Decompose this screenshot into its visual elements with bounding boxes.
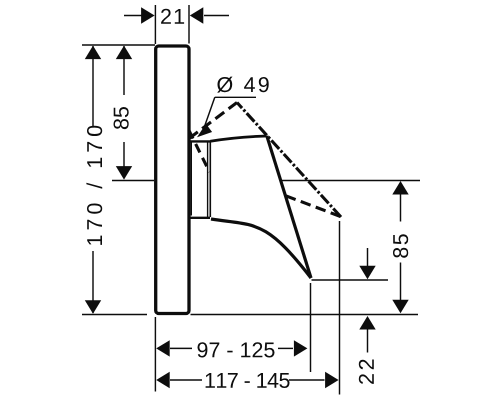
dim 170/170: top arrow — [85, 46, 101, 60]
dim 85 right: lower arrow — [392, 300, 408, 314]
extension line below dashed tip — [339, 221, 341, 395]
dim 117-145: right arrow — [289, 379, 325, 381]
dim 21: left extension line — [154, 5, 156, 44]
dim 85 left: bottom arrow — [116, 166, 132, 180]
bottom reference line left segment — [82, 314, 147, 316]
dashed raised-handle lower edge — [285, 196, 341, 217]
dim 85 right: line lower part — [400, 263, 402, 301]
dash-dot centerline apex to tip — [237, 103, 341, 218]
dim 85 left: line upper part — [123, 46, 125, 95]
dim 170/170: bottom arrow — [85, 300, 101, 314]
dim 170/170: line lower part — [92, 251, 94, 313]
dim 85 right: line upper part — [400, 194, 402, 222]
dim 21: right arrow — [204, 15, 229, 17]
leader arrowhead — [197, 124, 212, 138]
center-level extension line (left short) — [112, 180, 154, 182]
leader shoulder line — [215, 96, 256, 98]
sleeve top edge — [190, 140, 211, 142]
extension line below plate (left) — [154, 317, 156, 392]
bottom reference line right segment — [191, 314, 419, 316]
dim 97-125: left arrow — [156, 340, 170, 356]
dim 85 left: label (rotated) — [114, 107, 129, 129]
wall plate (escutcheon) outline — [156, 46, 189, 314]
dim 85 left: top arrow — [116, 46, 132, 60]
dim 85 left: line lower part — [123, 142, 125, 167]
plate-top extension line (left) — [82, 44, 155, 46]
sleeve right double line outer — [209, 142, 211, 218]
diameter label Ø 49 — [217, 77, 269, 93]
dim 22: upper arrow (points down to tip level) — [359, 266, 375, 280]
dashed circle arc segment (left of sleeve) — [189, 130, 210, 172]
dim 85 right: label (rotated) — [393, 234, 408, 258]
sleeve right double line inner — [207, 142, 209, 218]
dim 22: lower arrow (points up to bottom line) — [359, 316, 375, 330]
dim 170/170: line upper part — [92, 46, 94, 126]
dim 117-145: label — [206, 373, 290, 388]
dim 21: label — [161, 9, 184, 24]
extension line below handle tip — [310, 283, 312, 372]
dashed raised-handle upper-left edge — [189, 103, 237, 139]
dim 21: left arrow — [124, 15, 142, 17]
center-level extension line (right) — [282, 180, 420, 182]
dim 170/170: label (rotated) — [86, 126, 102, 245]
dim 22: label (rotated) — [359, 360, 374, 384]
dim 22: upper arrow line — [367, 248, 369, 267]
handle bottom curve — [211, 219, 311, 278]
dim 97-125: label — [198, 342, 275, 357]
dim 85 right: upper arrow — [392, 181, 408, 195]
handle top edge — [210, 136, 266, 141]
dim 97-125: right arrow — [278, 347, 293, 349]
sleeve left edge — [190, 142, 192, 216]
leader diagonal line — [205, 97, 215, 126]
sleeve bottom edge — [190, 217, 210, 219]
dim 21: right extension line — [188, 5, 190, 44]
tip-level extension line — [312, 279, 389, 281]
dim 117-145: left arrow — [156, 372, 170, 388]
handle right (outer) edge — [267, 136, 311, 278]
dim 22: lower line — [367, 329, 369, 353]
